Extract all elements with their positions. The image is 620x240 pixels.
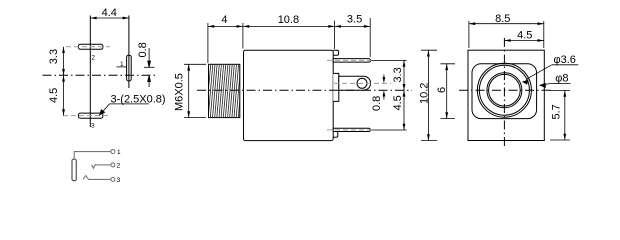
svg-text:5.7: 5.7 [551,104,563,119]
dim 10.8 line [243,25,335,27]
dim 4.5 line (top) [504,40,543,42]
dim 5.7 ticks [550,91,570,141]
top dim chain extension lines [208,18,370,63]
dim 8.5 ext lines [469,21,544,48]
leader phi3.6 arrow [526,65,552,80]
lug 3 [78,113,103,118]
label 1 underline [117,66,127,68]
dim 3.3 line [403,60,405,90]
bottom lug dashed line [327,129,375,131]
inner ring circle 1 [487,73,522,108]
dim 0.8 upper arrow [148,48,151,67]
svg-text:6: 6 [436,87,448,93]
lug hole [357,78,367,88]
svg-text:2: 2 [91,54,95,61]
dim 4.5 line [403,90,405,130]
bottom lug [333,128,370,131]
dim 4.5 arrows [62,75,65,115]
top lug dashed line [327,59,375,61]
threaded bushing outline [209,64,240,117]
axis centerline [197,89,412,91]
outer ring circle 2 [479,65,529,115]
dim 5.7 line [564,91,566,141]
lug 3 dashed line [63,115,110,117]
pin 3 circle [111,177,115,181]
svg-text:0.8: 0.8 [371,96,383,111]
dim 6 ticks [441,64,456,119]
dim 4.4 arrows [90,17,129,20]
top-right tab [333,50,338,55]
svg-text:3: 3 [117,177,121,184]
dim 10.2 ticks [421,50,437,140]
outer square [468,50,544,140]
leader phi8 arrow [543,84,550,85]
dim 3.3 arrows [62,47,65,76]
vertical centerline [503,38,505,148]
svg-text:φ8: φ8 [555,73,568,85]
wire pin3 [89,178,111,180]
svg-text:3.5: 3.5 [347,14,362,26]
horizontal centerline [459,89,552,91]
dim 4 line [208,25,243,27]
sleeve bar [72,159,76,180]
svg-text:φ3.6: φ3.6 [554,54,576,66]
dim 0.8 lower arrow [148,75,151,87]
bottom-right tab [333,132,338,138]
svg-text:4: 4 [221,14,227,26]
dim M6X0.5 line [188,64,190,117]
leader underline [109,103,148,105]
inner ring circle 2 [489,74,521,106]
svg-text:4.5: 4.5 [48,88,60,103]
lug 2 dashed line [66,46,110,48]
svg-text:10.8: 10.8 [278,14,299,26]
svg-text:4.5: 4.5 [392,95,404,110]
svg-text:3: 3 [91,123,95,130]
leader 3-(2.5X0.8) arrow [101,104,110,114]
dim 8.5 line [469,23,544,25]
svg-text:M6X0.5: M6X0.5 [174,73,186,111]
body outline [244,50,334,140]
vertical centerline through lugs 2,3 [89,16,91,128]
right dims extension lines [372,60,407,130]
sleeve lug plate step [333,73,339,101]
dim 0.8 arrows (right) [383,75,385,78]
dim M6X0.5 ticks [184,64,206,117]
pin 1 circle [111,150,115,154]
top lug [333,59,370,63]
dim 3.5 line [335,25,371,27]
lug 2 [78,44,103,49]
sleeve lug with hole [339,76,371,90]
dim 0.8 tick [144,66,155,68]
svg-text:1: 1 [117,149,121,156]
svg-text:8.5: 8.5 [495,13,510,25]
outer ring circle 1 [477,63,531,117]
tip contact ^ [83,176,89,180]
dim 4.5 line [63,75,65,115]
sleeve lug dashed line [334,82,391,84]
lug 1 [127,55,132,81]
lug 1 vertical line [128,16,130,89]
dim 3.3 line [63,47,65,76]
svg-text:4.4: 4.4 [102,7,117,19]
svg-text:3.3: 3.3 [392,67,404,82]
wire pin1 [74,152,111,160]
leader phi8 underline [550,83,571,85]
svg-text:10.2: 10.2 [419,83,431,104]
switch contact v [92,164,96,168]
svg-text:0.8: 0.8 [137,42,149,57]
pin 2 circle [111,163,115,167]
dim 6 line [446,64,448,119]
svg-text:3.3: 3.3 [48,49,60,64]
inner rounded face [472,64,537,119]
svg-text:4.5: 4.5 [517,29,532,41]
dim 10.2 line [427,50,429,140]
wire pin2 [95,164,111,166]
svg-text:2: 2 [117,163,121,170]
leader phi3.6 underline [552,64,579,66]
dim 4.4 line [90,17,129,19]
svg-text:3-(2.5X0.8): 3-(2.5X0.8) [111,93,166,105]
horizontal centerline [43,74,158,76]
